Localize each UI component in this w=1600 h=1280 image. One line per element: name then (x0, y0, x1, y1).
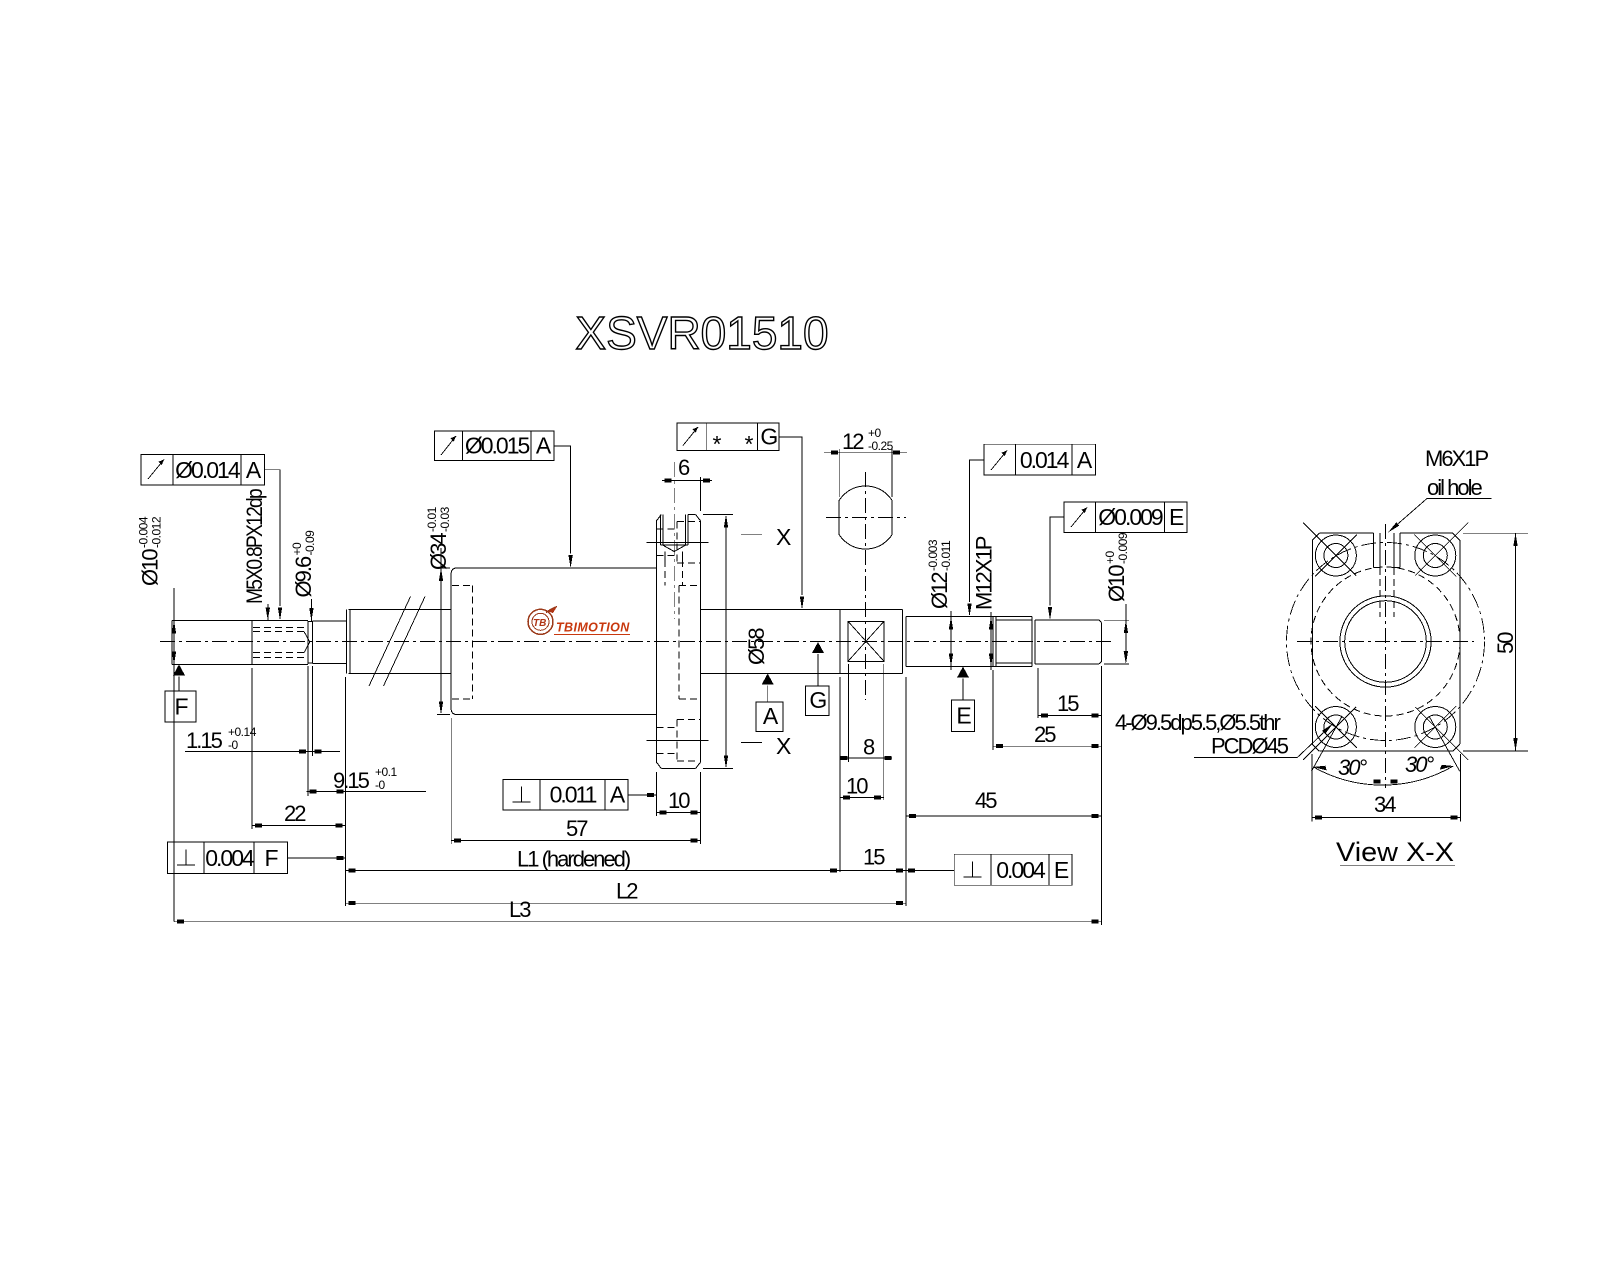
svg-text:1.15: 1.15 (186, 728, 223, 753)
oil hole axis (673, 462, 675, 619)
dimension 8 keyway (840, 664, 892, 800)
FCF frame 0.014 A (top right) (967, 444, 1095, 616)
FCF frame phi0.009 E (1048, 502, 1187, 620)
svg-text:-0.03: -0.03 (438, 506, 452, 532)
svg-text:Ø34: Ø34 (426, 533, 451, 570)
view centerlines (1297, 524, 1474, 788)
svg-text:30°: 30° (1338, 755, 1367, 780)
dimension 9.15 (307, 756, 427, 796)
svg-text:22: 22 (284, 801, 306, 826)
dimension 12 across flats (824, 426, 907, 497)
svg-text:0.004: 0.004 (205, 845, 255, 871)
svg-text:0.011: 0.011 (550, 782, 597, 808)
TBIMOTION logo (528, 607, 630, 635)
svg-text:+0.1: +0.1 (375, 765, 398, 779)
dimension 34 (1312, 754, 1460, 821)
ball nut body (451, 568, 656, 715)
datum G symbol (806, 642, 830, 716)
svg-text:L2: L2 (616, 879, 638, 904)
svg-text:0.004: 0.004 (996, 857, 1046, 883)
phi12 journal section (906, 616, 993, 666)
svg-text:PCDØ45: PCDØ45 (1211, 734, 1289, 759)
right end journal phi10 (1035, 620, 1102, 664)
M6 oil hole slot (1374, 533, 1401, 617)
svg-text:-0.004: -0.004 (137, 516, 151, 548)
phi58 label and dimension (703, 515, 769, 769)
svg-text:M12X1P: M12X1P (972, 536, 997, 610)
svg-text:15: 15 (1057, 691, 1079, 716)
left journal shaft phi10 (172, 620, 252, 664)
bolt hole bottom right (1414, 706, 1468, 760)
svg-text:25: 25 (1034, 722, 1056, 747)
dimension L2 (346, 879, 906, 906)
svg-text:Ø0.014: Ø0.014 (175, 457, 241, 483)
svg-text:-0: -0 (375, 778, 385, 792)
svg-text:E: E (1169, 504, 1184, 530)
M12X1P thread section (993, 616, 1035, 666)
bolt hole top right (1414, 523, 1468, 577)
FCF frame perp 0.004 F (bottom left) (168, 842, 346, 874)
dimension 45 (906, 788, 1102, 818)
svg-text:12: 12 (842, 429, 864, 454)
flange outline (656, 515, 700, 769)
dimension 22 (252, 668, 346, 906)
keyway box with cross (848, 621, 884, 661)
step chamfer to phi12 (902, 610, 906, 674)
svg-text:Ø0.009: Ø0.009 (1098, 504, 1163, 530)
svg-text:TB: TB (533, 618, 546, 629)
bolt hole top left (1303, 523, 1357, 577)
svg-text:-0.25: -0.25 (868, 439, 894, 453)
svg-text:XSVR01510: XSVR01510 (575, 307, 828, 359)
dimension 10 keyway position (840, 677, 884, 872)
svg-text:-0.003: -0.003 (926, 539, 940, 571)
svg-text:L3: L3 (509, 897, 531, 922)
svg-text:G: G (809, 687, 826, 713)
svg-text:F: F (174, 694, 188, 720)
4-phi9.5 bolt hole callout (1115, 710, 1335, 759)
neck phi9.6 (313, 621, 347, 664)
flange bore hidden lines (679, 586, 701, 699)
svg-text:6: 6 (678, 455, 690, 480)
svg-text:8: 8 (863, 735, 875, 760)
dimension L1 hardened (346, 847, 840, 873)
svg-text:57: 57 (566, 816, 588, 841)
svg-text:Ø12: Ø12 (927, 572, 952, 609)
dimension 1.15 (185, 666, 340, 756)
svg-text:30°: 30° (1405, 752, 1434, 777)
view title (1336, 837, 1455, 867)
svg-text:X: X (776, 524, 791, 550)
section circle crosshair (826, 472, 906, 700)
flange plate outline (1312, 533, 1460, 751)
svg-text:-0: -0 (228, 738, 238, 752)
svg-text:L1 (hardened): L1 (hardened) (517, 847, 630, 872)
break symbol (369, 597, 425, 687)
svg-text:oil hole: oil hole (1427, 475, 1482, 500)
phi10 left label and dimension (137, 516, 177, 922)
svg-text:Ø58: Ø58 (744, 628, 769, 665)
svg-text:-0.009: -0.009 (1116, 532, 1130, 564)
svg-text:4-Ø9.5dp5.5,Ø5.5thr: 4-Ø9.5dp5.5,Ø5.5thr (1115, 710, 1280, 735)
dimension 15 right end (1038, 666, 1102, 925)
bolt hole bottom left (1303, 706, 1357, 760)
M12X1P label and dimension (972, 536, 997, 670)
M5 tapped section (252, 620, 310, 664)
dimension L3 (174, 897, 1102, 924)
svg-text:10: 10 (668, 788, 690, 813)
svg-text:Ø10: Ø10 (138, 549, 163, 586)
svg-text:+0: +0 (868, 426, 882, 440)
svg-text:M6X1P: M6X1P (1425, 446, 1488, 471)
relief groove 1.15 (308, 621, 313, 664)
30 degree angular dimensions (1312, 717, 1460, 785)
svg-text:45: 45 (975, 788, 997, 813)
screw shaft right of flange (701, 610, 903, 674)
svg-text:50: 50 (1493, 632, 1518, 654)
PCD45 bolt circle (1287, 543, 1485, 741)
phi10 right label and dimension (1103, 532, 1130, 664)
flange bottom bolt hole hidden (647, 720, 709, 761)
datum A symbol (756, 674, 783, 732)
FCF frame runout phi0.014 A (top left) (141, 455, 282, 621)
svg-text:Ø0.015: Ø0.015 (465, 433, 530, 459)
dimension 6 oil hole (662, 455, 712, 511)
nut bore hidden lines left (452, 586, 472, 699)
svg-text:Ø10: Ø10 (1104, 565, 1129, 602)
dimension 25 (993, 670, 1102, 750)
phi34 label and dimension (425, 506, 452, 714)
removed section circle with flats (12 across) (833, 486, 899, 549)
svg-text:M5X0.8PX12dp: M5X0.8PX12dp (242, 488, 267, 604)
nut body hidden circle phi34 (1311, 567, 1460, 716)
dimension 57 (451, 718, 700, 844)
main axis centerline (160, 641, 1113, 643)
svg-text:34: 34 (1374, 792, 1396, 817)
svg-text:E: E (956, 703, 971, 729)
M5X0.8PX12dp thread label (242, 488, 270, 620)
dimension 15 flats (840, 677, 906, 906)
svg-text:F: F (264, 845, 278, 871)
svg-text:G: G (760, 424, 777, 450)
svg-text:-0.011: -0.011 (939, 540, 953, 571)
flange top bolt hole hidden (647, 522, 709, 564)
M6X1P oil hole labels (1387, 446, 1492, 534)
phi12 label and dimension (926, 539, 953, 670)
datum F symbol (165, 664, 196, 722)
dimension 50 (1463, 533, 1528, 751)
FCF frame star star G (flange) (677, 423, 804, 610)
svg-text:-0.09: -0.09 (303, 530, 317, 556)
svg-text:Ø9.6: Ø9.6 (291, 556, 316, 597)
svg-text:E: E (1054, 857, 1069, 883)
datum E symbol (952, 667, 975, 732)
svg-text:-0.012: -0.012 (150, 516, 164, 548)
svg-text:X: X (776, 733, 791, 759)
M6 oil hole in flange (660, 515, 688, 586)
svg-text:TBIMOTION: TBIMOTION (556, 621, 630, 635)
svg-text:9.15: 9.15 (333, 768, 370, 793)
phi9.6 label (290, 530, 317, 621)
svg-text:View X-X: View X-X (1336, 837, 1454, 867)
svg-text:0.014: 0.014 (1020, 447, 1070, 473)
FCF frame perp 0.011 A (503, 780, 656, 810)
svg-text:+0: +0 (290, 542, 304, 556)
thread end line (839, 610, 841, 674)
center bore circles (1340, 596, 1431, 687)
svg-text:15: 15 (863, 845, 885, 870)
FCF frame perp 0.004 E (bottom right) (906, 854, 1072, 885)
dimension 10 flange width (656, 772, 700, 816)
X section marks (741, 524, 791, 759)
svg-text:10: 10 (846, 774, 868, 799)
svg-text:-0.01: -0.01 (425, 506, 439, 532)
svg-text:+0: +0 (1103, 550, 1117, 564)
screw shaft left section (347, 610, 452, 674)
FCF frame phi0.015 A (top middle) (435, 431, 573, 568)
